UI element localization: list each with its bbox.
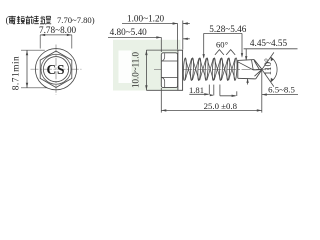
svg-text:4.45~4.55: 4.45~4.55	[250, 38, 288, 48]
svg-text:1.00~1.20: 1.00~1.20	[127, 14, 165, 24]
dim 5.28~5.46 lines	[203, 33, 244, 58]
dim 1.00~1.20 lines	[122, 21, 190, 50]
110 deg point angle callout	[262, 52, 277, 86]
svg-text:7.70~7.80): 7.70~7.80)	[57, 15, 95, 25]
CJK glyph 前	[26, 16, 34, 24]
thread flank helix lines	[185, 58, 235, 80]
dim 6.5~8.5 line	[262, 93, 298, 95]
head facet line top	[162, 60, 178, 62]
ext lines 8.71min	[21, 50, 47, 88]
CJK glyph 邊	[43, 16, 51, 24]
svg-text:6.5~8.5: 6.5~8.5	[268, 84, 295, 94]
washer flange	[178, 50, 183, 90]
centerline horizontal	[31, 68, 82, 70]
head outline	[161, 53, 177, 88]
head chamfer mark bottom	[162, 78, 165, 88]
ext lines 7.78	[40, 35, 72, 49]
dim 8.71min line	[26, 50, 28, 88]
axis centerline	[154, 69, 270, 71]
thread crest lenses	[183, 58, 238, 81]
svg-text:(: (	[6, 15, 9, 25]
svg-text:8.71min: 8.71min	[12, 56, 22, 91]
CJK glyph 電	[8, 16, 15, 24]
svg-text:5.28~5.46: 5.28~5.46	[209, 24, 247, 34]
svg-text:10.0~11.0: 10.0~11.0	[130, 51, 140, 88]
CJK glyph 鍍	[17, 16, 25, 24]
centerline vertical	[55, 45, 57, 95]
dim 1.81 lines	[189, 85, 214, 97]
head chamfer mark top	[162, 53, 165, 61]
hexagon	[40, 51, 72, 87]
header note text	[6, 15, 95, 25]
thread runout hook	[220, 85, 237, 98]
svg-text:25.0 ±0.8: 25.0 ±0.8	[204, 101, 238, 111]
head facet line bottom	[162, 76, 178, 78]
highlight box (green)	[113, 40, 181, 91]
dim 4.80~5.40 lines	[108, 36, 190, 52]
dim 10.0~11.0 line	[145, 50, 177, 90]
flute face	[252, 60, 254, 70]
drill point body	[238, 60, 256, 79]
60 deg profile marks	[215, 50, 235, 55]
svg-text:110°: 110°	[263, 58, 273, 75]
svg-text:60°: 60°	[216, 40, 229, 50]
svg-text:1.81: 1.81	[189, 85, 204, 95]
CJK glyph 對	[34, 16, 44, 24]
svg-text:7.78~8.00: 7.78~8.00	[39, 25, 77, 35]
washer outer circle	[35, 49, 76, 90]
dim 4.45~4.55 lines	[244, 49, 298, 85]
svg-text:4.80~5.40: 4.80~5.40	[110, 27, 148, 37]
dim 7.78~8.00 line	[40, 34, 72, 36]
dim 25.0 line	[161, 71, 261, 113]
svg-text:CS: CS	[46, 62, 65, 77]
point cone	[253, 60, 262, 79]
CS boss circle	[43, 57, 68, 82]
flute diagonal	[238, 62, 253, 70]
white notch inside highlight	[119, 51, 132, 84]
hex chamfer circle	[41, 54, 71, 84]
